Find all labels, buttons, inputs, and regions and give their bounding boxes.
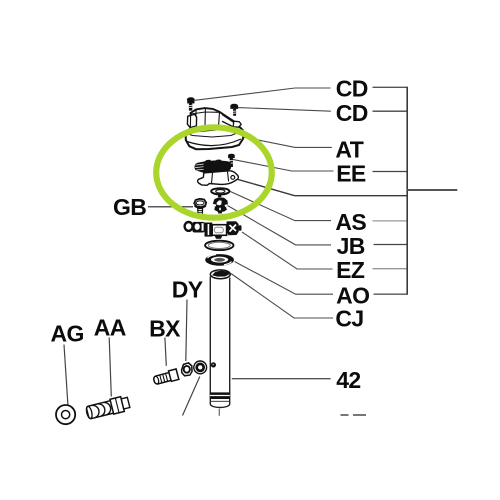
svg-text:AG: AG — [51, 321, 84, 347]
svg-text:42: 42 — [336, 367, 360, 393]
svg-text:BX: BX — [149, 315, 181, 341]
svg-text:AS: AS — [335, 209, 366, 235]
svg-text:EE: EE — [336, 160, 366, 186]
svg-text:JB: JB — [337, 233, 365, 259]
svg-text:DY: DY — [172, 276, 203, 302]
svg-text:CD: CD — [336, 76, 368, 102]
svg-text:AA: AA — [94, 314, 126, 340]
svg-text:AT: AT — [335, 136, 363, 162]
svg-text:EZ: EZ — [336, 257, 365, 283]
svg-text:GB: GB — [113, 194, 146, 220]
svg-text:CJ: CJ — [335, 306, 363, 332]
svg-text:AO: AO — [336, 282, 369, 308]
svg-text:CD: CD — [336, 100, 368, 126]
